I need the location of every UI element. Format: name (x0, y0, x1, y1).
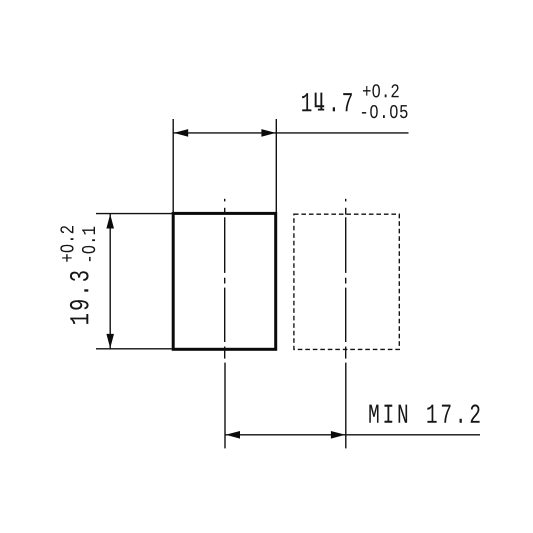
left dimension arrowhead bottom (106, 334, 114, 348)
left dimension extension line bottom (96, 348, 172, 350)
part outline solid rectangle (173, 213, 276, 349)
dimension text 19.3 (rotated) (70, 271, 89, 324)
left dimension extension line top (96, 213, 172, 215)
bottom dimension arrowhead right (331, 431, 345, 439)
left dimension line (109, 214, 111, 349)
top dimension extension line right (275, 119, 277, 212)
centerline of dashed rectangle (345, 199, 347, 359)
bottom dimension line (225, 434, 480, 436)
bottom dimension arrowhead left (226, 431, 240, 439)
top dimension arrowhead right (261, 129, 275, 137)
top dimension arrowhead left (174, 129, 188, 137)
top dimension extension line left (172, 119, 174, 212)
dimension text MIN 17.2 (369, 404, 479, 422)
tolerance text +0.2 (363, 84, 399, 97)
top dimension line (174, 132, 409, 134)
bottom dimension extension line left (224, 363, 226, 449)
tolerance text -0.05 (362, 105, 408, 118)
dimension text 14.7 (302, 93, 352, 111)
tolerance text -0.1 (rotated) (82, 227, 95, 261)
phantom outline dashed rectangle (294, 214, 399, 349)
left dimension arrowhead top (106, 214, 114, 228)
tolerance text +0.2 (rotated) (60, 226, 73, 262)
centerline of solid rectangle (224, 199, 226, 359)
bottom dimension extension line right (345, 363, 347, 449)
